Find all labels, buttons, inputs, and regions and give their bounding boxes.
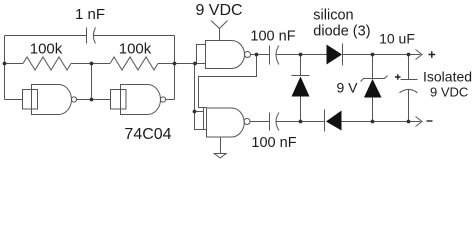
wire top from rail to C1: [5, 35, 87, 37]
wire mid vertical node: [91, 64, 93, 100]
svg-text:100 nF: 100 nF: [251, 135, 296, 151]
inverter U1a bubble: [71, 97, 76, 102]
wire gate1 out to gate2 in: [77, 99, 111, 101]
svg-text:9 V: 9 V: [336, 80, 358, 96]
inverter U1d body: [207, 108, 245, 137]
capacitor C2 100 nF top: [270, 46, 280, 65]
svg-text:10 uF: 10 uF: [379, 31, 415, 47]
svg-text:9 VDC: 9 VDC: [195, 2, 242, 19]
zener ZD1 triangle (points up): [364, 79, 382, 98]
svg-text:74C04: 74C04: [124, 126, 171, 143]
wire top rail diode to end: [343, 54, 421, 56]
wire feedback gate3 out to gate4 in: [199, 55, 257, 108]
diode D1 vertical wires: [300, 55, 302, 122]
arrow bottom output: [416, 117, 423, 127]
diode D1 cathode bar: [292, 75, 310, 77]
inverter U1a tied-input box: [23, 90, 38, 110]
wire gate4 output: [250, 121, 270, 123]
diode D3 cathode bar: [324, 110, 326, 132]
capacitor C4 plus sign: [395, 51, 435, 121]
wire left rail: [4, 36, 6, 100]
svg-text:diode (3): diode (3): [313, 24, 370, 40]
svg-text:Isolated: Isolated: [423, 69, 472, 85]
diode D3 triangle (points left): [326, 111, 342, 131]
inverter U1c body: [206, 41, 245, 69]
capacitor C4 curved plate: [400, 89, 418, 92]
wire resistor row left: [5, 63, 24, 65]
wire node to gate4 input: [195, 64, 205, 130]
svg-text:100 nF: 100 nF: [250, 29, 295, 45]
capacitor C4 10uF wires: [408, 55, 410, 122]
inverter U1b tied-input box: [111, 90, 127, 110]
diode fills: [292, 45, 382, 131]
diode D1 triangle (points up): [292, 77, 310, 97]
output plus sign: [429, 51, 436, 58]
ground stem: [220, 137, 222, 154]
inverter U1d bubble: [244, 119, 250, 125]
diode D2 cathode bar: [342, 44, 344, 66]
supply pin wire 9VDC: [219, 29, 221, 41]
inverter U1d tied-input box left edge: [204, 108, 207, 130]
wire top rail cap to diode D2: [276, 54, 326, 56]
svg-text:100k: 100k: [119, 41, 152, 58]
wire resistor row right: [158, 63, 197, 65]
arrow top output: [416, 50, 423, 60]
ground symbol: [214, 154, 226, 159]
capacitor C3 100 nF bottom: [270, 113, 280, 131]
inverter U1a body: [32, 85, 72, 115]
svg-text:1 nF: 1 nF: [75, 6, 105, 23]
wire gate2 output: [166, 99, 175, 101]
inverter U1b body: [121, 85, 161, 115]
wire between resistors: [71, 63, 110, 65]
wire right vertical: [174, 36, 176, 100]
inverter U1b bubble: [160, 97, 165, 102]
wire bottom rail diode to end: [342, 121, 421, 123]
svg-text:9 VDC: 9 VDC: [430, 85, 468, 100]
zener ZD1 wires: [372, 55, 374, 122]
supply arrow 9VDC: [211, 21, 228, 29]
wire bottom rail cap to diode D3: [276, 121, 324, 123]
svg-text:silicon: silicon: [313, 8, 353, 24]
capacitor C4 top plate: [401, 79, 418, 81]
resistor R1 100k: [23, 57, 71, 70]
capacitor C1 1 nF: [87, 28, 96, 44]
wire gate1 input: [5, 99, 23, 101]
wire gate4 input stub: [195, 111, 204, 113]
wire top from C1 to right vertical: [93, 35, 174, 37]
wire gate3 output: [251, 54, 270, 56]
output minus sign: [427, 120, 433, 122]
inverter U1c tied-input box: [197, 45, 206, 64]
diode D2 triangle (points right): [327, 45, 343, 65]
inverter U1c bubble: [245, 52, 251, 58]
svg-text:100k: 100k: [30, 41, 63, 58]
resistor R2 100k: [110, 57, 158, 70]
zener ZD1 bar: [361, 76, 388, 82]
